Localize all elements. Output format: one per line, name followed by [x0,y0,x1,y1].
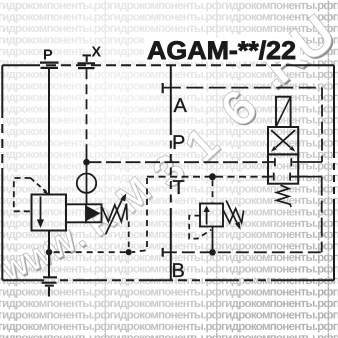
wire through circle [86,162,88,204]
wire P down [48,69,50,195]
boundary right [333,65,335,280]
arrow main relief [37,197,44,229]
label P mid [172,132,185,154]
wire relief B pilot dashed [189,216,211,239]
spring solenoid valve [277,185,291,207]
label P top [43,48,53,64]
svg-text:P: P [43,48,53,64]
port P top symbol [40,63,59,68]
spring relief B [223,209,243,223]
wire center vertical [170,65,172,280]
label X top [92,45,102,61]
wire relief B top dashed [212,180,214,203]
valve position 1 crossed arrows [268,127,298,154]
node X-pilot junction [83,159,90,166]
wire drain to tank [48,255,50,277]
title AGAM label [144,37,300,65]
node main drain junction [46,249,52,255]
label T [173,177,185,199]
boundary bottom [2,279,334,281]
wire T-line drop [132,178,147,252]
wire A line [164,88,322,162]
spring pilot relief [102,204,128,222]
relief valve B body [200,204,223,227]
node drain junction [126,249,132,255]
main relief valve body [32,195,67,231]
wire link to pilot box [66,204,86,222]
wire relief B bottom [212,227,214,250]
svg-text:P: P [172,132,185,154]
wire spring drain dashed [128,222,130,249]
wire pilot line to solenoid valve [87,161,269,163]
svg-text:X: X [92,45,102,61]
wire main valve outlet [48,231,50,250]
wire drain to tank line [52,251,126,253]
node T junction [209,173,216,180]
solenoid U1 [276,97,291,127]
wire T line [147,176,268,178]
tank symbol [42,277,58,296]
port B tick [162,248,164,257]
label B [172,260,185,282]
wire B line [164,177,322,253]
label A [174,95,188,117]
pilot relief box [86,204,102,222]
wire pilot dashed rect [14,178,49,211]
svg-text:AGAM-**/22: AGAM-**/22 [147,37,296,65]
svg-text:A: A [174,95,188,117]
node B junction [209,249,216,256]
svg-text:T: T [173,177,185,199]
valve position 2 closed ports [268,154,298,183]
check triangle [87,206,100,221]
boundary left [1,65,3,280]
svg-text:B: B [172,260,185,282]
wire X down dashed [86,69,88,162]
arrow adjust B [226,201,241,230]
boundary top [2,64,334,66]
port A tick [162,83,164,93]
gauge circle [77,174,96,193]
arrow adjust left [106,193,127,234]
port X plug symbol [78,55,96,68]
arrow relief B [203,206,209,225]
